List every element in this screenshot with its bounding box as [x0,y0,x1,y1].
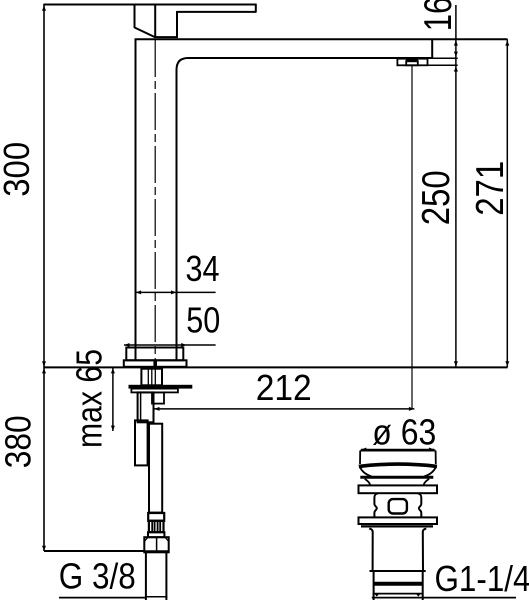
lever rear vertical [176,11,178,38]
spout underside extension to dim [433,57,458,59]
lever underside [177,11,257,13]
svg-text:50: 50 [186,299,220,340]
column left edge [135,39,137,347]
svg-text:271: 271 [469,161,512,216]
spout underside with inner rounded corner + column right edge [177,58,434,348]
lever front diagonal [134,27,155,37]
shank inner line a [147,369,149,386]
arrow right 212 [409,407,414,411]
drain body bottom line [370,570,426,572]
arrow up 271 [505,40,509,45]
svg-text:max 65: max 65 [69,349,110,448]
arrow up 16 top [454,40,458,45]
50 dimension line [124,344,216,346]
base upper block [126,348,183,361]
aerator body [397,59,427,66]
lever seat short line [154,36,178,38]
svg-text:16: 16 [417,0,460,31]
drain castellated right side [418,493,422,517]
hex nut thick bottom [144,550,169,553]
svg-text:250: 250 [415,170,458,225]
top extension + lever top line [44,4,257,6]
arrow down bottom of 380 dim [42,546,46,551]
drain thread line [373,593,424,595]
braid stripe 4 [159,521,161,532]
arrow up top of 380 dim at deck [42,368,46,373]
arrow left dia63 [361,448,366,452]
drain funnel right [424,467,436,477]
271 vertical dimension line [506,39,508,367]
drain dia63 dimension line [361,449,434,451]
drain gasket line [361,525,433,527]
drain funnel left [360,467,372,477]
drain tail left edge [373,571,375,600]
nut inner line [140,392,142,422]
G3/8 pipe left edge [145,552,147,600]
braid stripe 3 [157,521,159,532]
drain body right side [423,529,427,571]
shank inner line c [154,369,156,386]
arrow up 250 top [454,66,458,71]
drain neck right [424,479,430,486]
34 dimension line [136,291,216,293]
svg-text:34: 34 [186,248,220,289]
centerline of faucet (dash-dot) [154,40,156,367]
extension line from aerator down to 212 dim [411,65,413,409]
pop-up rod housing [135,420,148,465]
mounting nut body [138,392,154,422]
base plate right half [156,360,187,367]
hex nut face line [156,537,158,552]
nut right box [152,392,164,403]
hex nut chamfer left [144,538,147,542]
arrow up top of 300 dim [42,6,46,11]
drain cap bottom arc (thick) [359,464,437,466]
deck / mounting surface line [44,366,508,368]
drain castellated left side [374,493,378,517]
baseline nub right [416,594,421,597]
spout tip vertical [431,39,433,58]
212 dimension line [154,408,414,410]
arrow down 250 bottom [454,361,458,366]
base block inner right line [176,348,178,361]
bottom baseline [372,597,516,599]
drain body left side [369,529,373,571]
arrow down 271 [505,361,509,366]
svg-text:G 3/8: G 3/8 [59,556,136,597]
250/16 vertical dimension line [455,5,457,367]
svg-text:G1-1/4: G1-1/4 [435,558,529,599]
arrow right 50 [181,343,186,347]
svg-text:300: 300 [0,142,37,197]
arrow down bottom of 300 dim at deck [42,361,46,366]
drain neck left [365,479,371,486]
drain cap left side [359,451,361,465]
arrow up max65 [111,368,115,373]
gasket plate [131,389,178,393]
lever tip end cap [255,4,257,12]
horseshoe washer (filled) [129,385,193,389]
aerator insert [406,61,418,65]
braid stripe 1 [151,521,153,532]
arrow down 16 bottom [454,52,458,57]
drain lower flange [359,517,438,524]
arrow left 212 [154,407,159,411]
arrow right 34 [171,290,176,294]
G3/8 underline [59,597,145,599]
arrow left 50 [124,343,129,347]
lever front-left edge [134,5,136,28]
svg-text:212: 212 [256,367,312,408]
shank inner line b [151,369,153,386]
drain upper flange [359,485,438,493]
hose ferrule [148,513,164,521]
threaded shank [141,369,162,386]
hose hex nut [144,537,168,552]
drain center hole [389,499,407,513]
aerator extension line to dim [428,64,458,66]
svg-text:380: 380 [0,415,38,468]
base plate left half [124,360,155,367]
hex nut chamfer right [165,538,168,542]
drain thread relief thick band [373,582,423,586]
flexible hose [149,424,162,513]
arrow right dia63 [429,448,434,452]
arrow left 34 [136,290,141,294]
arrow down max65 [111,426,115,431]
drain cap right side [435,451,437,465]
base block inner left line [135,348,137,361]
drain tail right edge [422,571,424,600]
drain seal washer (thick) [360,476,433,479]
G3/8 pipe thread line [145,596,167,598]
aerator insert dark top [406,58,418,62]
baseline nub left [374,594,379,597]
spout top edge + right extension [135,38,508,40]
lever mid vertical [154,5,156,39]
svg-text:ø 63: ø 63 [372,412,436,453]
left vertical dimension line 300/380 [43,4,45,551]
bottom left horizontal line to hose nut [44,550,145,552]
G3/8 pipe right edge [165,552,167,600]
drain cap top [360,450,435,452]
braided section [149,521,164,532]
braid stripe 2 [154,521,156,532]
max 65 dimension line [112,368,114,431]
hose collar [148,532,164,537]
